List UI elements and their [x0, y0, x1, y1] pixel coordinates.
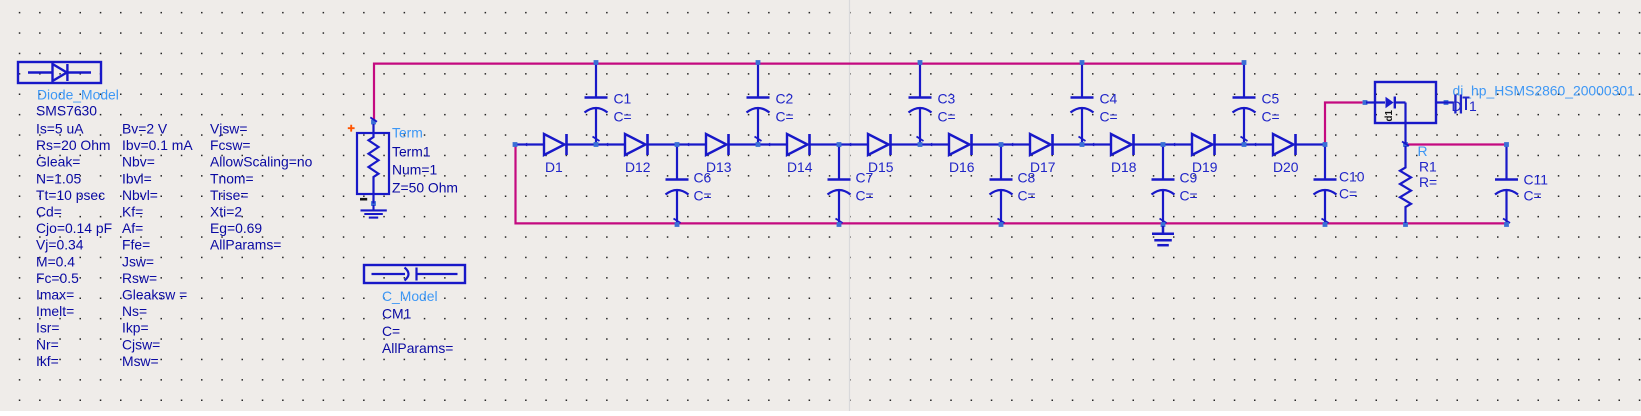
- svg-text:R=: R=: [1419, 174, 1437, 190]
- svg-text:Eg=0.69: Eg=0.69: [210, 220, 262, 236]
- svg-text:Is=5 uA: Is=5 uA: [36, 121, 84, 137]
- capacitor C11: [1495, 145, 1518, 226]
- diode D1: [515, 134, 596, 155]
- svg-text:C=: C=: [1100, 109, 1118, 125]
- svg-text:Gleak=: Gleak=: [36, 154, 80, 170]
- svg-text:D20: D20: [1273, 159, 1299, 175]
- wire: D20 cathode up to DI1 box pin1: [1325, 103, 1363, 143]
- svg-text:C5: C5: [1262, 91, 1280, 107]
- capacitor C7: [828, 145, 851, 226]
- svg-text:AllParams=: AllParams=: [210, 237, 281, 253]
- minus polarity mark: [360, 198, 367, 201]
- svg-text:C=: C=: [1180, 188, 1198, 204]
- svg-text:C3: C3: [938, 91, 956, 107]
- svg-text:Ikf=: Ikf=: [36, 353, 59, 369]
- wire: Term to top rail (net Vin): [374, 64, 1244, 121]
- svg-text:Msw=: Msw=: [122, 353, 159, 369]
- svg-text:Ikp=: Ikp=: [122, 320, 149, 336]
- svg-text:Ffe=: Ffe=: [122, 237, 150, 253]
- svg-text:Rsw=: Rsw=: [122, 270, 157, 286]
- junctions bottom rail: [675, 222, 680, 227]
- svg-text:C8: C8: [1018, 170, 1036, 186]
- svg-text:Imelt=: Imelt=: [36, 303, 74, 319]
- diode D14: [758, 134, 839, 155]
- diode D13: [677, 134, 758, 155]
- svg-text:C=: C=: [1262, 109, 1280, 125]
- svg-text:AllParams=: AllParams=: [382, 340, 453, 356]
- capacitor C2: [747, 63, 770, 144]
- svg-text:1: 1: [1469, 98, 1477, 114]
- svg-text:D18: D18: [1111, 159, 1137, 175]
- svg-text:Cd=: Cd=: [36, 204, 62, 220]
- svg-text:Nbv=: Nbv=: [122, 154, 155, 170]
- svg-text:D14: D14: [787, 159, 813, 175]
- svg-text:Gleaksw =: Gleaksw =: [122, 287, 187, 303]
- capacitor C10: [1314, 145, 1337, 226]
- diode D19: [1163, 134, 1244, 155]
- svg-text:C=: C=: [382, 323, 400, 339]
- svg-text:C7: C7: [856, 170, 874, 186]
- svg-text:R: R: [1418, 143, 1428, 159]
- plus polarity mark: [348, 125, 355, 132]
- svg-text:D12: D12: [625, 159, 651, 175]
- capacitor C4: [1071, 63, 1094, 144]
- svg-text:R1: R1: [1419, 159, 1437, 175]
- Term1 pin squares: [371, 120, 376, 125]
- svg-text:Fc=0.5: Fc=0.5: [36, 270, 79, 286]
- svg-text:Trise=: Trise=: [210, 187, 248, 203]
- svg-text:C=: C=: [856, 188, 874, 204]
- svg-text:Af=: Af=: [122, 220, 143, 236]
- svg-text:Cjsw=: Cjsw=: [122, 336, 160, 352]
- svg-text:C10: C10: [1339, 169, 1365, 185]
- svg-text:CM1: CM1: [382, 306, 412, 322]
- page boundary line: [849, 0, 851, 411]
- svg-text:C4: C4: [1100, 91, 1118, 107]
- svg-text:Kf=: Kf=: [122, 204, 143, 220]
- wire: left drop from D1 anode + bottom rail (ground net): [516, 146, 1508, 223]
- diode D15: [839, 134, 920, 155]
- svg-text:Rs=20 Ohm: Rs=20 Ohm: [36, 137, 111, 153]
- svg-text:Nr=: Nr=: [36, 336, 59, 352]
- svg-text:Tnom=: Tnom=: [210, 170, 254, 186]
- svg-text:Diode_Model: Diode_Model: [37, 87, 119, 103]
- wire: R1 top node to C11 top (output net): [1408, 143, 1505, 145]
- svg-text:Term1: Term1: [392, 144, 431, 160]
- C_Model symbol box: [364, 265, 465, 283]
- svg-text:C=: C=: [614, 109, 632, 125]
- svg-text:C1: C1: [614, 91, 632, 107]
- diode D12: [596, 134, 677, 155]
- Diode_Model symbol box: [18, 62, 101, 83]
- svg-text:C=: C=: [1524, 188, 1542, 204]
- diode D20: [1244, 134, 1325, 155]
- svg-text:Vj=0.34: Vj=0.34: [36, 237, 84, 253]
- svg-text:Term: Term: [392, 125, 423, 141]
- Term1 pin tick: [370, 117, 377, 121]
- svg-text:Xti=2: Xti=2: [210, 204, 242, 220]
- capacitor C5: [1233, 63, 1256, 144]
- capacitor C9: [1152, 145, 1175, 226]
- svg-text:M=0.4: M=0.4: [36, 253, 75, 269]
- svg-text:AllowScaling=no: AllowScaling=no: [210, 154, 313, 170]
- svg-text:N=1.05: N=1.05: [36, 170, 81, 186]
- ground at bottom rail (C9): [1152, 226, 1174, 245]
- svg-text:Nbvl=: Nbvl=: [122, 187, 158, 203]
- svg-text:C11: C11: [1524, 172, 1549, 188]
- svg-text:C_Model: C_Model: [382, 288, 438, 304]
- resistor R1: [1400, 146, 1411, 223]
- svg-text:Imax=: Imax=: [36, 287, 74, 303]
- svg-text:SMS7630: SMS7630: [36, 103, 97, 119]
- junctions diode chain: [513, 142, 518, 147]
- packaged diode DI1 (di_hp_HSMS2860): [1366, 82, 1453, 145]
- svg-text:Bv=2 V: Bv=2 V: [122, 121, 168, 137]
- diode D18: [1082, 134, 1163, 155]
- svg-text:C=: C=: [776, 109, 794, 125]
- svg-text:Tt=10 psec: Tt=10 psec: [36, 187, 105, 203]
- svg-text:Z=50 Ohm: Z=50 Ohm: [392, 180, 458, 196]
- svg-text:D1: D1: [545, 159, 563, 175]
- svg-text:Ns=: Ns=: [122, 303, 147, 319]
- svg-text:C=: C=: [1018, 188, 1036, 204]
- svg-text:C=: C=: [694, 188, 712, 204]
- DI1 pin1 tick at R node: [1402, 142, 1409, 147]
- DI1 internal diode (filled): [1386, 97, 1394, 108]
- capacitor C6: [666, 145, 689, 226]
- svg-text:Vjsw=: Vjsw=: [210, 121, 247, 137]
- junctions right section: [1363, 100, 1368, 105]
- svg-text:Ibv=0.1 mA: Ibv=0.1 mA: [122, 137, 193, 153]
- svg-text:C=: C=: [938, 109, 956, 125]
- capacitor C8: [990, 145, 1013, 226]
- port Term1: [357, 124, 389, 204]
- junctions top rail: [594, 60, 599, 65]
- svg-text:C6: C6: [694, 170, 712, 186]
- svg-text:Isr=: Isr=: [36, 320, 60, 336]
- diode D16: [920, 134, 1001, 155]
- capacitor C1: [585, 63, 608, 144]
- svg-text:C2: C2: [776, 91, 794, 107]
- svg-text:Fcsw=: Fcsw=: [210, 137, 251, 153]
- svg-text:d1: d1: [1384, 110, 1395, 122]
- svg-text:Ibvl=: Ibvl=: [122, 170, 152, 186]
- svg-text:D16: D16: [949, 159, 975, 175]
- diode D17: [1001, 134, 1082, 155]
- capacitor C3: [909, 63, 932, 144]
- svg-text:di_hp_HSMS2860_20000301: di_hp_HSMS2860_20000301: [1453, 83, 1636, 99]
- ground under Term1: [361, 205, 387, 218]
- svg-text:C=: C=: [1339, 186, 1357, 202]
- svg-text:Cjo=0.14 pF: Cjo=0.14 pF: [36, 220, 112, 236]
- svg-text:C9: C9: [1180, 170, 1198, 186]
- svg-text:Num=1: Num=1: [392, 162, 437, 178]
- svg-text:Jsw=: Jsw=: [122, 253, 154, 269]
